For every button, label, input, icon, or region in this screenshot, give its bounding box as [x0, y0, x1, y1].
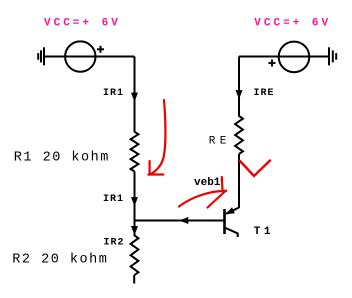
- wire junction to R2: [134, 220, 136, 237]
- wire right vertical (corner down to RE): [238, 57, 240, 117]
- resistor R2: [131, 235, 139, 275]
- voltage source V2 (right): [279, 42, 310, 73]
- transistor T1 base bar: [223, 209, 226, 234]
- svg-text:IR1: IR1: [103, 88, 124, 99]
- svg-text:IR2: IR2: [104, 238, 125, 249]
- transistor T1 emitter lead with arrow (PNP): [225, 207, 239, 214]
- wire left vertical (corner down to R1): [134, 57, 136, 133]
- wire R1 bottom to junction: [134, 172, 136, 222]
- current arrow IR1 (upper): [131, 93, 138, 102]
- svg-text:IR1: IR1: [103, 194, 124, 205]
- wire RE bottom to emitter corner: [238, 154, 240, 208]
- ground (left): [38, 47, 44, 65]
- svg-text:T1: T1: [254, 226, 274, 238]
- svg-text:RE: RE: [209, 136, 231, 148]
- wire R2 bottom stub: [133, 275, 135, 284]
- red annotation arrow (down along R1): [148, 100, 165, 175]
- svg-text:veb1: veb1: [194, 177, 221, 189]
- svg-text:VCC=+ 6V: VCC=+ 6V: [254, 17, 331, 29]
- svg-text:IRE: IRE: [254, 88, 275, 99]
- resistor RE: [235, 116, 243, 154]
- voltage source V1 (left): [65, 41, 95, 71]
- ground (right): [329, 47, 336, 65]
- red annotation check mark (below RE): [240, 161, 270, 177]
- wire left ground to left corner: [44, 56, 135, 58]
- current arrow IRE: [236, 90, 243, 99]
- svg-text:VCC=+ 6V: VCC=+ 6V: [44, 17, 121, 29]
- current arrow on base wire (pointing left): [179, 217, 188, 224]
- current arrow IR2: [131, 226, 138, 235]
- plus sign of V1: [97, 46, 104, 53]
- wire base (junction to transistor base): [134, 220, 225, 222]
- current arrow IR1 (lower): [131, 197, 138, 206]
- svg-text:R1 20 kohm: R1 20 kohm: [14, 150, 110, 165]
- plus sign of V2: [269, 60, 276, 67]
- wire right corner to right ground: [239, 56, 329, 58]
- transistor T1 collector lead: [225, 228, 238, 238]
- svg-text:R2 20 kohm: R2 20 kohm: [12, 252, 108, 267]
- red annotation curved arrow (veb1): [179, 177, 226, 208]
- resistor R1: [131, 132, 139, 172]
